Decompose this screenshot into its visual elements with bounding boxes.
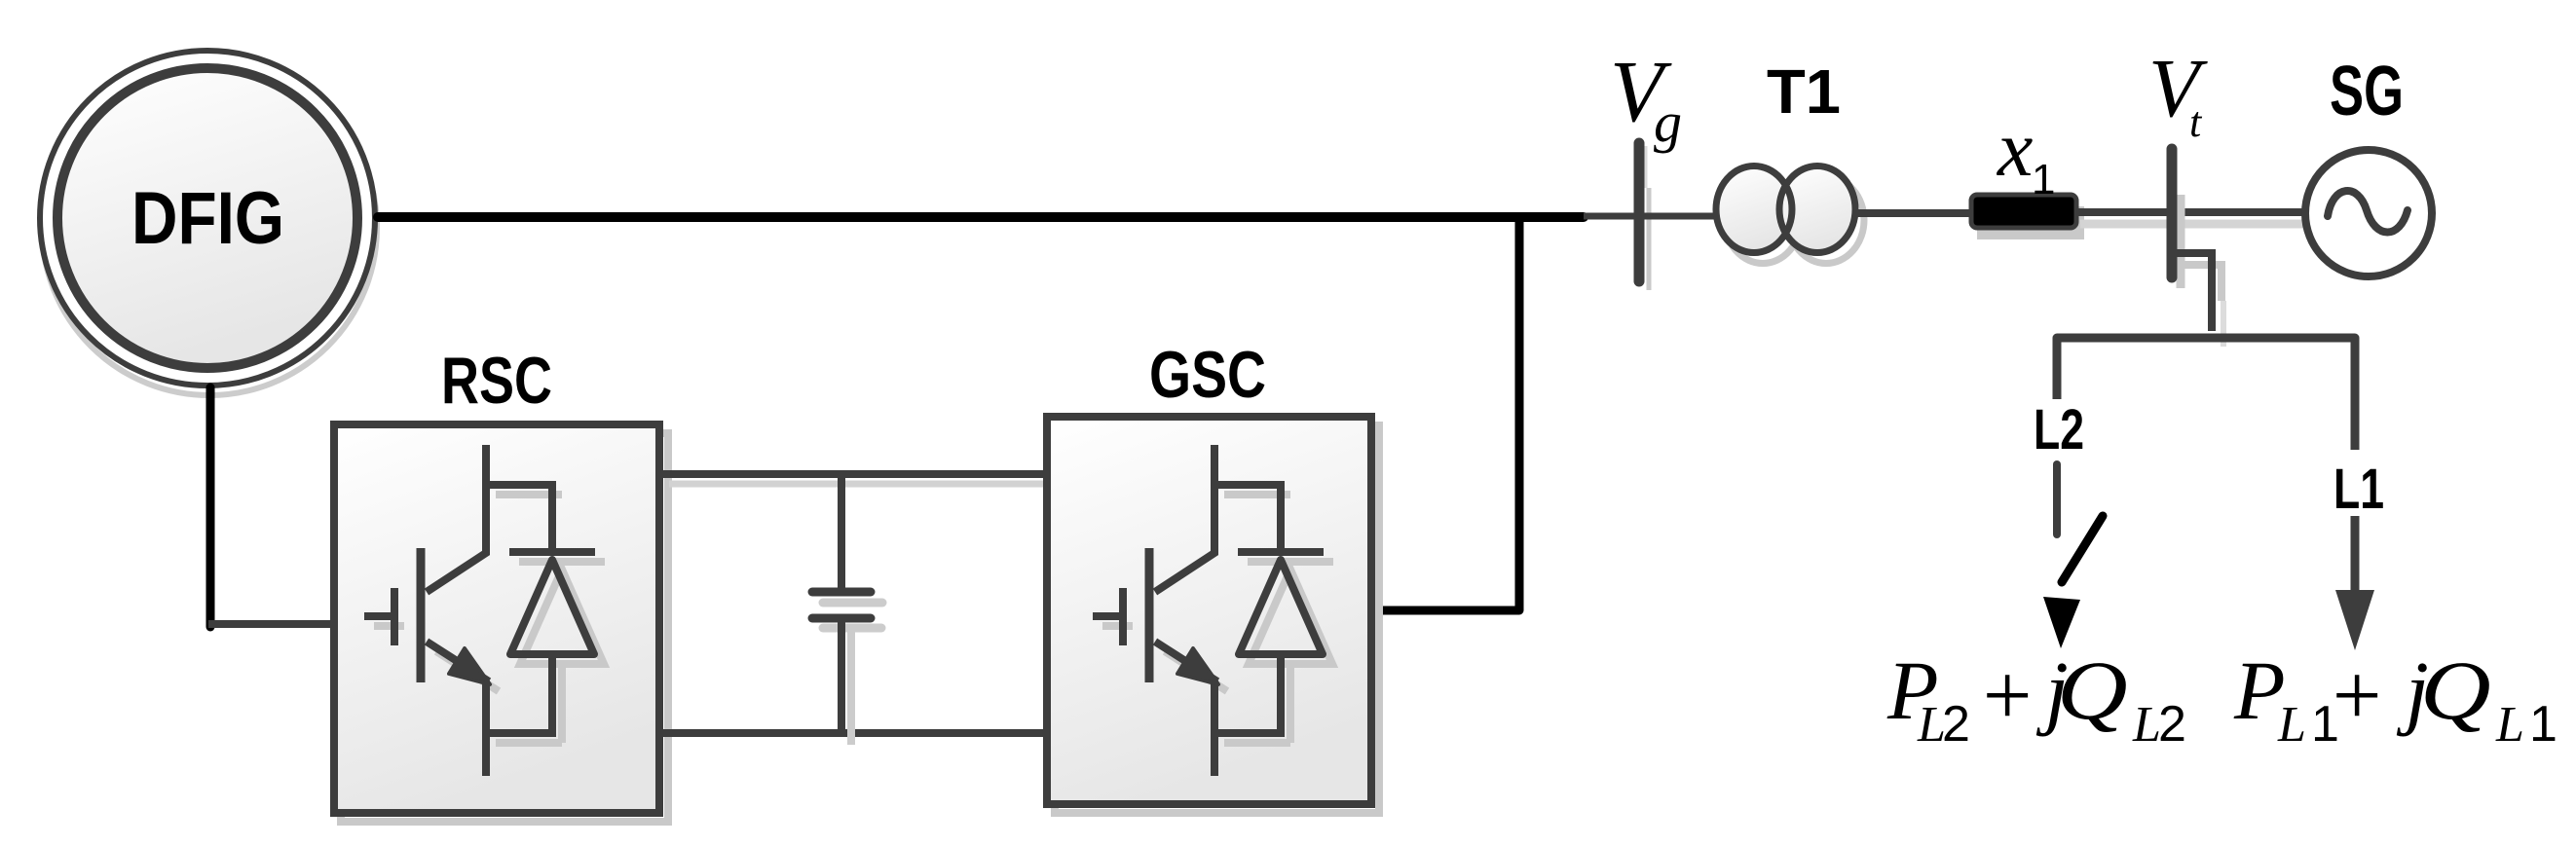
- reactance x1 shadow: [1977, 206, 2084, 239]
- wire load branch tee: [2057, 338, 2355, 450]
- svg-text:GSC: GSC: [1149, 338, 1266, 412]
- converter RSC box: [334, 424, 659, 813]
- wire x1 to SG: [2076, 208, 2308, 216]
- label PL2+jQL2: [1886, 644, 2186, 753]
- IGBT Q2 + diode D2 shadows: [1102, 495, 1333, 743]
- svg-text:L: L: [2277, 697, 2306, 753]
- svg-text:L: L: [2495, 697, 2524, 753]
- svg-text:g: g: [1654, 91, 1682, 154]
- svg-text:t: t: [2189, 98, 2203, 146]
- svg-text:1: 1: [2529, 696, 2557, 753]
- svg-text:L: L: [2132, 697, 2161, 753]
- bus Vt: [2167, 149, 2178, 277]
- wire stator: DFIG to grid bus: [378, 212, 1584, 222]
- svg-text:L2: L2: [2034, 398, 2084, 461]
- converter RSC box shadow: [341, 433, 668, 822]
- bus Vt shadow: [2177, 195, 2185, 288]
- load L1 arrowhead: [2335, 590, 2374, 650]
- capacitor C (DC link): [812, 474, 871, 733]
- svg-text:L1: L1: [2333, 458, 2384, 521]
- wire bus Vg to transformer: [1584, 213, 1718, 220]
- svg-text:T1: T1: [1767, 56, 1841, 127]
- load L1 wire segment: [2351, 516, 2360, 592]
- machine DFIG: [40, 51, 375, 386]
- label PL1+jQL1: [2233, 644, 2557, 753]
- transformer T1: [1716, 166, 1855, 253]
- svg-text:+: +: [2327, 647, 2386, 744]
- svg-text:1: 1: [2032, 156, 2055, 203]
- IGBT Q1 emitter arrowhead: [449, 648, 490, 684]
- transformer T1 shadow: [1725, 177, 1864, 264]
- diode D1: [486, 485, 595, 733]
- svg-text:x: x: [1997, 104, 2033, 193]
- generator SG sine wave: [2328, 191, 2408, 232]
- wire DC link top: [659, 470, 1051, 478]
- wire GSC branch: junction down and left to GSC output: [1375, 217, 1519, 610]
- svg-text:SG: SG: [2330, 53, 2404, 130]
- svg-text:+: +: [1977, 647, 2036, 744]
- diode D2: [1214, 485, 1324, 733]
- converter GSC box: [1047, 417, 1371, 804]
- wire x1 to SG shadow: [2080, 220, 2320, 229]
- converter GSC box shadow: [1055, 425, 1379, 813]
- IGBT Q2 emitter arrowhead: [1177, 648, 1218, 684]
- generator SG: [2305, 150, 2432, 276]
- load L2 wire segment: [2053, 464, 2061, 534]
- IGBT Q2: [1093, 445, 1217, 776]
- wire load feeder shadow: [2183, 265, 2221, 301]
- wire rotor: DFIG bottom down: [206, 387, 215, 627]
- reactance x1: [1971, 195, 2076, 228]
- IGBT Q1 + diode D1 shadows: [374, 495, 605, 743]
- wire transformer to reactance x1: [1857, 209, 1973, 217]
- wire load feeder from bus Vt: [2172, 253, 2212, 331]
- bus Vg shadow: [1645, 146, 1648, 188]
- machine DFIG shadow: [42, 60, 377, 395]
- IGBT Q1: [364, 445, 489, 776]
- svg-text:2: 2: [1942, 696, 1970, 753]
- svg-text:RSC: RSC: [441, 344, 552, 418]
- wire rotor: to RSC input: [208, 620, 337, 628]
- bus Vg: [1634, 143, 1645, 281]
- svg-text:Q: Q: [2420, 645, 2491, 738]
- load L2 arrowhead: [2043, 597, 2080, 648]
- svg-text:2: 2: [2158, 696, 2186, 753]
- capacitor C shadow: [823, 603, 882, 745]
- svg-text:DFIG: DFIG: [131, 177, 284, 260]
- svg-text:Q: Q: [2057, 645, 2128, 738]
- load L2 breaker arrow line: [2062, 516, 2103, 582]
- wire DC link top shadow: [669, 481, 1062, 488]
- wire DC link bottom: [659, 729, 1051, 737]
